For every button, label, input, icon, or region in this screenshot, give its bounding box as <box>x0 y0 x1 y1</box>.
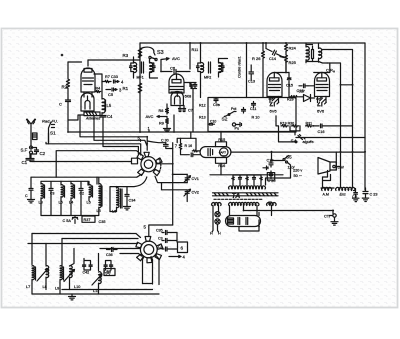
svg-text:6V6: 6V6 <box>270 109 278 114</box>
capacitor C19 <box>269 161 273 168</box>
wire: speaker links <box>323 152 341 188</box>
resistor R29 horizontal <box>289 96 299 99</box>
svg-text:Antennes: Antennes <box>85 117 101 121</box>
coil L11 top right <box>306 43 309 63</box>
svg-text:R37: R37 <box>84 218 91 222</box>
wire: right frame vertical x=365 <box>364 43 366 190</box>
svg-text:R11: R11 <box>192 48 199 52</box>
capacitor C20 <box>267 171 274 180</box>
capacitor C top right <box>312 46 314 62</box>
svg-text:C17: C17 <box>299 90 305 94</box>
capacitor C34 <box>125 190 129 206</box>
svg-text:C 23: C 23 <box>370 193 378 197</box>
cathode resistor and C7 <box>179 106 186 112</box>
wire: SW2 left feeds <box>28 234 142 257</box>
svg-text:S3: S3 <box>157 50 164 56</box>
trimmer CV1 <box>184 174 191 182</box>
coil L7 <box>32 266 36 284</box>
wire: SW2 bottom drops <box>143 256 160 285</box>
capacitor C38 <box>162 247 177 251</box>
wafer SW2 fingers <box>136 237 163 263</box>
transformer TA primary <box>229 186 266 189</box>
wire: second right vertical x=352.5 <box>322 50 353 189</box>
switch S1 <box>49 122 55 143</box>
wire: output stage links <box>289 82 315 98</box>
tube V4 cathode hatch <box>317 97 327 107</box>
field coil Exc <box>336 188 355 191</box>
wafer SW1 dashed arc <box>159 159 161 173</box>
resistor R16 loop <box>216 158 227 164</box>
wire: left drops to coils <box>32 234 99 271</box>
bottom wire of bank <box>41 196 99 215</box>
coil L4 <box>89 183 93 201</box>
wafer SW1 fingers <box>132 152 163 175</box>
antenna <box>27 119 36 133</box>
svg-text:6AF7: 6AF7 <box>219 151 227 155</box>
TA secondary <box>229 203 259 206</box>
capacitors C42 <box>83 261 93 270</box>
svg-text:C2: C2 <box>40 151 46 156</box>
wire: vertical x=263 with R26 <box>262 43 265 97</box>
capacitor C23 electrolytic <box>362 188 368 202</box>
transformer TA core <box>213 193 279 196</box>
wire: MF1 to tube <box>134 57 158 78</box>
wire: wafer SW1 to trimmers <box>156 164 187 175</box>
wafer switch SW1 <box>141 157 156 172</box>
svg-text:L5: L5 <box>107 103 112 108</box>
pilot lamp 1 <box>215 212 220 217</box>
svg-text:R9: R9 <box>159 122 164 126</box>
tube V2 converter 6K8 <box>169 74 184 93</box>
svg-text:C3: C3 <box>158 245 163 249</box>
svg-text:C 5A: C 5A <box>63 219 72 223</box>
switch S3 <box>139 47 157 61</box>
resistor R37 box <box>82 216 95 222</box>
svg-text:C11: C11 <box>250 107 256 111</box>
svg-text:S2: S2 <box>222 117 228 123</box>
artifact blob <box>61 54 64 57</box>
wire: left frame vertical x=140 <box>139 43 141 132</box>
resistor R2 <box>66 62 69 98</box>
resistor R3 <box>138 48 142 58</box>
svg-text:H: H <box>210 232 213 236</box>
svg-text:aiguës: aiguës <box>303 140 314 144</box>
coil L8 arrow <box>37 266 49 284</box>
arrow 4 bottom <box>169 255 181 257</box>
wire: third right vertical x=340.5 <box>327 63 341 188</box>
tube V1 RF amp <box>81 60 95 97</box>
capacitor C15 <box>287 73 291 83</box>
svg-text:(A): (A) <box>106 271 111 275</box>
svg-text:C10: C10 <box>210 120 216 124</box>
label DW <box>333 165 335 167</box>
svg-text:AVC: AVC <box>172 56 180 61</box>
TA right winding <box>267 203 276 206</box>
svg-text:50 ∼: 50 ∼ <box>294 174 302 178</box>
switch S4 <box>292 135 306 143</box>
svg-text:C4: C4 <box>107 114 113 119</box>
capacitor C2 <box>31 148 39 155</box>
resistor R7 + capacitor C33 to arrow 4 <box>102 80 119 83</box>
svg-text:C 20: C 20 <box>268 179 276 183</box>
svg-text:CTl: CTl <box>324 215 330 219</box>
svg-text:C3: C3 <box>158 237 163 241</box>
resistor R25 <box>285 52 288 72</box>
wafer switch SW2 <box>140 241 157 258</box>
RC pair right of tube <box>184 83 197 133</box>
wire: lamp drops <box>212 212 219 233</box>
wire: bank feeds <box>49 133 98 185</box>
svg-text:6V6: 6V6 <box>317 109 325 114</box>
wire: plate feeds <box>274 62 330 73</box>
svg-text:C2: C2 <box>80 192 84 196</box>
capacitor C9 <box>214 98 218 103</box>
svg-text:R 10: R 10 <box>252 116 260 120</box>
svg-text:R13: R13 <box>199 116 206 120</box>
svg-text:C 2: C 2 <box>352 195 357 199</box>
rectifier tube <box>226 216 261 227</box>
svg-text:L10: L10 <box>74 285 80 289</box>
wire: TA drops <box>213 206 272 216</box>
wire: MF2 connections <box>201 43 228 98</box>
rectifier diode W <box>304 95 311 102</box>
switch S2 <box>224 112 236 117</box>
svg-text:R 26: R 26 <box>252 56 261 61</box>
svg-text:C3: C3 <box>50 192 54 196</box>
coil L3 <box>71 182 75 201</box>
svg-text:S.F: S.F <box>21 148 28 153</box>
svg-text:R3: R3 <box>123 53 129 58</box>
wire: R30 junction to S4 <box>290 126 300 135</box>
svg-text:C35: C35 <box>99 220 106 224</box>
svg-text:R29: R29 <box>287 98 294 102</box>
wire: vertical x=172.7 <box>172 143 174 225</box>
svg-text:CV2: CV2 <box>192 191 199 195</box>
wire: junction 1 tick <box>148 131 150 133</box>
wire: horizontal y=151.5 long <box>231 151 365 153</box>
phono jack Pu <box>232 123 241 127</box>
wire: AVC arrow top <box>161 58 169 60</box>
svg-text:Rad. FU.: Rad. FU. <box>42 119 58 124</box>
wire: L6 bottom link <box>110 211 117 213</box>
svg-text:R7 C33: R7 C33 <box>105 75 118 79</box>
jack CT1 <box>330 211 338 226</box>
svg-text:C5: C5 <box>108 92 114 97</box>
capacitor C20b <box>79 182 83 197</box>
TA shield dashed <box>214 198 263 200</box>
capacitor C16 <box>314 124 353 128</box>
resistor R8 vertical <box>166 104 169 114</box>
capacitor Cg + ground left <box>28 177 35 203</box>
svg-text:A.M: A.M <box>323 193 329 197</box>
capacitor C11 <box>252 102 256 108</box>
svg-text:R24: R24 <box>289 46 297 51</box>
svg-text:AVC: AVC <box>146 114 154 119</box>
box 6 <box>178 242 188 253</box>
wire: long bus y=132 <box>68 131 296 133</box>
capacitor C on x68 <box>66 98 71 132</box>
wire: eye tube links <box>191 132 221 175</box>
transformer MF1 <box>130 61 156 74</box>
svg-text:R16: R16 <box>218 164 225 168</box>
wire: S5 mains <box>271 152 291 168</box>
wire: exc links <box>321 188 356 211</box>
TA left winding <box>212 203 221 206</box>
capacitor C22 + ground <box>353 189 359 202</box>
svg-text:Exc: Exc <box>340 193 346 197</box>
wire: connector y=84.8 <box>341 84 353 86</box>
capacitor C4 <box>100 116 106 121</box>
wire: bottom buses <box>32 284 159 295</box>
svg-text:C14: C14 <box>269 57 276 61</box>
svg-text:R2: R2 <box>62 85 68 90</box>
coil L12 top right <box>319 43 322 62</box>
tube V2 lower hexode <box>171 92 183 106</box>
hatched box Antennes <box>84 112 100 116</box>
pilot lamp 2 <box>215 219 220 224</box>
capacitor C3 <box>49 182 53 197</box>
capacitor C13 <box>249 65 254 80</box>
svg-text:C34: C34 <box>129 199 136 203</box>
ground bottom <box>69 294 76 300</box>
coil L5 tall <box>99 178 102 209</box>
svg-text:S1: S1 <box>50 131 56 136</box>
switch S5 <box>283 156 289 164</box>
svg-text:Pot: Pot <box>231 107 236 111</box>
tube V4 6V6 <box>315 73 330 97</box>
coil bank top wires <box>31 174 141 181</box>
svg-text:R25: R25 <box>289 60 297 65</box>
svg-text:C 30: C 30 <box>161 139 169 143</box>
svg-text:C7: C7 <box>188 109 193 113</box>
fuse SF <box>30 133 33 158</box>
capacitor C35r <box>162 231 177 235</box>
resistor R31 <box>306 125 313 127</box>
ground under R9 <box>164 126 171 131</box>
resistor R19 <box>281 125 288 127</box>
svg-text:R4: R4 <box>96 87 101 91</box>
capacitor C18 <box>299 84 308 88</box>
AVC arrow mid <box>157 116 167 118</box>
wire: rectifier links <box>230 210 260 232</box>
capacitor C30 <box>164 143 173 149</box>
wire: ladder y=136.8 stem <box>146 137 148 150</box>
tube V3 6V6 <box>267 73 282 97</box>
resistor R4 <box>95 90 101 92</box>
coil L6 <box>117 187 123 212</box>
resistor R16 left <box>179 138 182 150</box>
capacitor C5 arrow 3 <box>106 88 117 91</box>
wire: C14 branch <box>266 43 286 58</box>
capacitor C5A <box>72 216 78 224</box>
resistor R1 (box) <box>33 133 38 140</box>
svg-text:C36: C36 <box>106 253 113 257</box>
magic eye tube 6AF7 <box>200 147 231 158</box>
ground under C34 <box>124 207 131 210</box>
junction dot <box>172 163 174 165</box>
svg-text:C9B: C9B <box>213 103 220 107</box>
output trans primary <box>322 188 332 191</box>
wire: wafer SW1 bottom drops <box>110 176 187 211</box>
capacitor C37 <box>162 239 177 243</box>
coil L9 <box>60 266 64 284</box>
svg-text:C16: C16 <box>318 130 325 134</box>
svg-text:(B): (B) <box>268 201 273 205</box>
wire: ladder group <box>56 116 147 177</box>
capacitor C10 <box>208 124 215 126</box>
svg-text:L9: L9 <box>55 287 59 291</box>
svg-text:C35: C35 <box>156 229 163 233</box>
svg-text:6K8: 6K8 <box>185 95 192 99</box>
wire: bus above TA <box>210 168 291 185</box>
wire: vertical x=246.5 <box>246 43 248 98</box>
wire: caps column SW2 <box>176 233 178 243</box>
svg-text:C: C <box>25 194 28 198</box>
wire: ladder y=143.8 <box>46 142 141 155</box>
svg-text:L7: L7 <box>26 285 30 289</box>
svg-text:220 v: 220 v <box>293 169 302 173</box>
wire: horizontal y=137.5 right side <box>296 137 365 139</box>
svg-text:C: C <box>59 102 62 107</box>
svg-text:R1: R1 <box>123 86 129 91</box>
capacitor C6/C8 on top of tube <box>161 60 190 78</box>
capacitor C1 <box>26 154 132 162</box>
wire: top right links <box>306 45 328 64</box>
wire: tube V1 links <box>68 60 140 120</box>
coil L5 <box>102 96 106 116</box>
svg-text:Contre réact.: Contre réact. <box>238 56 242 78</box>
tone network wires <box>276 116 292 142</box>
coil L10 arrow <box>64 266 75 284</box>
resistor R9 vertical <box>166 117 169 127</box>
svg-text:H: H <box>218 232 221 236</box>
box (A) <box>104 269 115 276</box>
capacitor C6b in box <box>242 108 246 114</box>
svg-text:S4: S4 <box>291 139 297 145</box>
capacitor C19b <box>263 166 268 170</box>
wire: misc bottom links <box>32 259 111 295</box>
svg-text:S5: S5 <box>286 155 292 160</box>
resistor R30 <box>292 125 299 127</box>
wire: SW2 stem <box>149 225 173 236</box>
svg-text:L6: L6 <box>87 201 91 205</box>
resistor R1b on frame <box>138 83 142 93</box>
speaker cone <box>318 158 336 175</box>
S2 control box <box>208 98 296 132</box>
svg-text:R15: R15 <box>218 138 225 142</box>
wire: vertical x=190 grid feed <box>189 43 191 69</box>
svg-text:R12: R12 <box>199 104 206 108</box>
transformer MF2 <box>197 61 225 74</box>
coil L1 <box>41 182 45 201</box>
coil L11 arrow <box>92 272 102 288</box>
svg-text:R31: R31 <box>306 122 313 126</box>
coil L2 <box>61 183 65 201</box>
svg-text:CV1: CV1 <box>192 177 199 181</box>
svg-text:MF1: MF1 <box>137 76 144 80</box>
svg-text:C6: C6 <box>170 66 176 71</box>
svg-text:6: 6 <box>181 246 184 251</box>
svg-text:R8: R8 <box>159 109 164 113</box>
capacitor C21 <box>181 150 201 156</box>
wire: HT bus right <box>259 210 333 212</box>
svg-text:C42: C42 <box>83 271 90 275</box>
trimmer CV2 <box>184 189 191 201</box>
svg-text:C1: C1 <box>22 160 28 165</box>
capacitors C43 <box>104 261 113 270</box>
resistor R14 <box>192 150 199 152</box>
wire: x=174 drop to bus <box>173 115 175 132</box>
resistor R24 <box>285 43 288 52</box>
tube V1 lower section <box>81 93 94 111</box>
tube V3 cathode hatch <box>269 97 279 107</box>
svg-text:R19 R30: R19 R30 <box>280 122 294 126</box>
svg-text:R 16: R 16 <box>185 144 193 148</box>
wire: grid feed 7 <box>177 138 196 149</box>
svg-text:Pu: Pu <box>235 127 240 131</box>
small resistor bank above TA <box>232 175 262 185</box>
wire: wafer SW1 stem branch <box>141 140 166 143</box>
wire: top bus y=43 <box>140 42 365 44</box>
svg-text:C13: C13 <box>248 80 255 84</box>
svg-text:MF2: MF2 <box>204 76 211 80</box>
capacitor C36 <box>107 248 118 252</box>
resistor R15 loop <box>216 142 227 147</box>
capacitor C14 <box>266 49 286 58</box>
